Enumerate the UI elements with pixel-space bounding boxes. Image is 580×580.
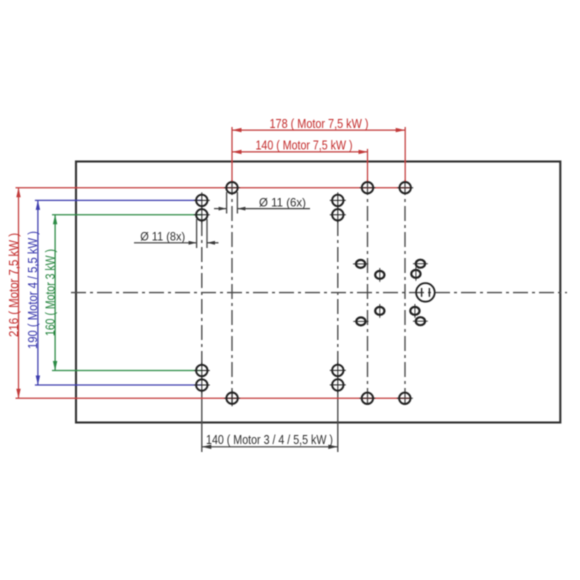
hole C1 [194,207,210,223]
svg-text:190 ( Motor 4 / 5,5 kW ): 190 ( Motor 4 / 5,5 kW ) [25,231,40,349]
dimension 216 vertical line [18,188,20,399]
hole A3 [397,182,413,193]
red horizontal extension line top [16,187,411,189]
hole A3b [397,393,413,404]
dimension 140 bottom line [202,446,338,448]
extension column x=337.8 lower extension [337,390,339,452]
blue horizontal extension bottom [35,384,202,386]
vertical centerline x=232 [231,180,233,405]
small hole S4 [411,267,420,281]
small hole S6 [410,304,419,318]
red vertical extension x=232 [231,127,233,183]
hole B2 [330,192,346,208]
small hole S2 [375,268,384,282]
hole C1b [194,363,210,379]
svg-text:Ø 11 (8x): Ø 11 (8x) [140,230,185,244]
hole A2 [360,182,376,193]
green horizontal extension bottom [52,370,202,372]
hole C2 [330,207,346,223]
hole A1 [224,182,240,193]
dimension 160 vertical line [54,215,56,371]
svg-text:160 ( Motor 3 kW ): 160 ( Motor 3 kW ) [43,249,58,336]
hole A2b [359,393,375,404]
vertical centerline x=367.5 [367,180,369,405]
svg-text:Ø 11 (6x): Ø 11 (6x) [259,196,306,210]
small hole S8 [413,317,428,325]
svg-text:178 ( Motor 7,5 kW ): 178 ( Motor 7,5 kW ) [270,116,369,131]
dimension 190 vertical line [37,200,39,385]
hole B2b [330,377,346,393]
svg-text:216 ( Motor 7,5 kW ): 216 ( Motor 7,5 kW ) [6,233,21,337]
horizontal centerline [71,292,567,294]
red vertical extension x=405.2 [404,127,406,183]
blue horizontal extension top [35,199,202,201]
extension column x=201.8 centerline [201,221,203,364]
small hole S1 [353,260,368,268]
svg-text:140 ( Motor 3 / 4 / 5,5 kW ): 140 ( Motor 3 / 4 / 5,5 kW ) [206,432,333,447]
small hole S5 [375,304,384,318]
hole B1b [194,377,210,393]
hole edge lines below hole C1 [196,219,198,248]
dimension 178 line [232,129,405,131]
svg-text:140 ( Motor 7,5 kW ): 140 ( Motor 7,5 kW ) [256,138,353,153]
green horizontal extension top [52,214,202,216]
hole A1b [224,390,240,406]
small hole S7 [353,317,368,325]
red horizontal extension line bottom [16,397,411,399]
hole B1 [194,192,210,208]
hole edge lines below hole A1 [226,192,228,214]
red vertical extension x=367.5 [367,149,369,183]
small hole S3 [413,260,428,268]
shaft circle [416,283,435,302]
plate outline [76,162,560,423]
hole C2b [330,362,346,378]
extension column x=337.8 centerline [337,221,339,364]
extension column x=201.8 lower extension [201,390,203,452]
vertical centerline x=405 [404,180,406,405]
dimension 140 top line [232,151,368,153]
